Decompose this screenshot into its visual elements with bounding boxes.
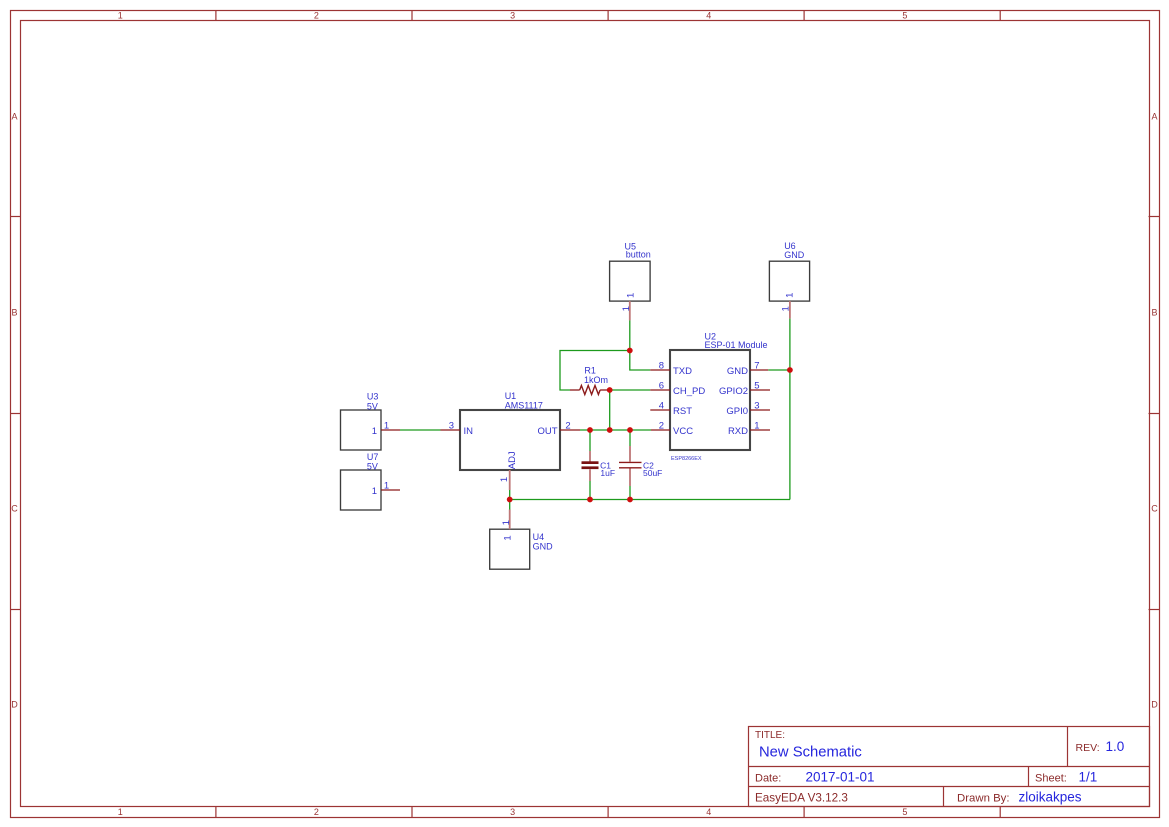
button U5 box: [610, 242, 651, 302]
svg-text:2: 2: [659, 421, 664, 432]
svg-text:50uF: 50uF: [643, 468, 662, 478]
svg-text:D: D: [11, 700, 18, 710]
wire loop U5 junction to R1 left: [560, 351, 630, 391]
junction GND node: [787, 367, 793, 373]
svg-text:5V: 5V: [367, 461, 378, 471]
U2 pin 7 GND: [727, 361, 768, 378]
svg-text:D: D: [1151, 700, 1158, 710]
svg-text:3: 3: [510, 807, 515, 817]
svg-text:Drawn By:: Drawn By:: [957, 793, 1010, 805]
svg-text:B: B: [11, 308, 17, 318]
ground symbol U4 box: [490, 529, 553, 569]
svg-text:GND: GND: [533, 542, 554, 552]
wire GND node down to rail: [789, 370, 791, 500]
junction C2 top: [627, 427, 633, 433]
svg-text:GND: GND: [784, 250, 805, 260]
svg-text:1uF: 1uF: [600, 468, 615, 478]
wire U3 to U1 IN: [400, 429, 441, 431]
svg-text:1: 1: [118, 10, 123, 20]
svg-text:ADJ: ADJ: [507, 451, 518, 469]
frame column ticks top: [216, 11, 1000, 21]
wire R1 to CH_PD: [610, 389, 651, 391]
svg-text:2: 2: [314, 807, 319, 817]
wire U1 OUT to U2 VCC: [580, 429, 651, 431]
svg-text:U7: U7: [367, 452, 379, 462]
svg-text:1kOm: 1kOm: [584, 375, 608, 385]
svg-text:5V: 5V: [367, 401, 378, 411]
U2 pin 5 GPIO2: [719, 381, 770, 398]
U7 pin 1: [372, 481, 400, 498]
capacitor C2 top lead: [629, 430, 631, 462]
junction C2 bottom: [627, 497, 633, 503]
ground symbol U6 box: [769, 241, 809, 301]
C2 labels: [643, 460, 662, 478]
U2 pin 2 VCC: [651, 421, 693, 438]
svg-text:C: C: [1151, 504, 1158, 514]
frame row letters right: [1151, 112, 1158, 710]
svg-text:4: 4: [706, 807, 711, 817]
svg-text:GND: GND: [727, 366, 748, 377]
svg-text:4: 4: [706, 10, 711, 20]
resistor R1: [570, 365, 610, 394]
svg-text:IN: IN: [464, 426, 474, 437]
svg-text:B: B: [1151, 308, 1157, 318]
svg-text:button: button: [626, 249, 651, 259]
svg-text:1: 1: [625, 293, 636, 298]
wire U6 pin down to GND node: [789, 319, 791, 370]
U2 pin 8 TXD: [650, 361, 692, 378]
svg-text:RST: RST: [673, 406, 692, 417]
svg-text:CH_PD: CH_PD: [673, 386, 705, 397]
svg-text:1: 1: [501, 520, 512, 525]
capacitor C1 bottom lead: [589, 469, 591, 499]
svg-text:2017-01-01: 2017-01-01: [806, 770, 875, 785]
svg-text:5: 5: [754, 381, 759, 392]
capacitor C1 plates: [582, 461, 599, 469]
U3 pin 1: [372, 421, 400, 438]
U1 pin 3 IN: [441, 421, 474, 438]
wire U5 pin to junction: [629, 320, 631, 350]
svg-text:A: A: [1151, 112, 1157, 122]
U1 pin 1 ADJ: [499, 451, 518, 490]
C1 labels: [600, 460, 615, 478]
svg-text:1: 1: [384, 421, 389, 432]
frame row ticks left: [11, 217, 21, 610]
svg-text:1: 1: [384, 481, 389, 492]
svg-text:1: 1: [372, 426, 377, 437]
capacitor C2 bottom lead: [629, 469, 631, 500]
ground rail wire: [510, 499, 790, 501]
wire R1 junction down to VCC wire: [609, 390, 611, 430]
junction C1 bottom: [587, 497, 593, 503]
module U2 ESP-01 box: [670, 332, 768, 463]
svg-text:8: 8: [659, 361, 664, 372]
svg-text:3: 3: [510, 10, 515, 20]
svg-text:GPI0: GPI0: [726, 406, 748, 417]
svg-text:3: 3: [449, 421, 454, 432]
U5 pin 1: [621, 293, 637, 321]
svg-text:6: 6: [659, 381, 664, 392]
power source U7 5V box: [341, 452, 382, 510]
U2 pin 6 CH_PD: [650, 381, 705, 398]
svg-text:1: 1: [372, 486, 377, 497]
svg-text:EasyEDA V3.12.3: EasyEDA V3.12.3: [755, 792, 848, 805]
svg-text:1: 1: [118, 807, 123, 817]
svg-text:Date:: Date:: [755, 773, 781, 785]
junction R1 right: [607, 387, 613, 393]
svg-text:U1: U1: [505, 391, 517, 401]
regulator U1 AMS1117 box: [460, 391, 560, 470]
svg-text:AMS1117: AMS1117: [505, 401, 543, 411]
svg-text:Sheet:: Sheet:: [1035, 773, 1067, 785]
svg-text:1.0: 1.0: [1106, 739, 1125, 754]
svg-text:1: 1: [780, 306, 791, 311]
junction R1 branch on VCC wire: [607, 427, 613, 433]
power source U3 5V box: [341, 392, 382, 451]
junction C1 top: [587, 427, 593, 433]
svg-text:GPIO2: GPIO2: [719, 386, 748, 397]
junction at ADJ and rail: [507, 497, 513, 503]
svg-text:1: 1: [754, 421, 759, 432]
U2 pin 3 GPI0: [726, 401, 770, 418]
wire rail to U4: [509, 500, 511, 510]
svg-text:2: 2: [314, 10, 319, 20]
capacitor C2 plates: [619, 462, 642, 467]
svg-text:REV:: REV:: [1076, 742, 1100, 754]
wire U5 junction to TXD: [630, 351, 651, 371]
svg-text:4: 4: [659, 401, 664, 412]
svg-text:1: 1: [621, 306, 632, 311]
svg-text:A: A: [11, 112, 17, 122]
U2 pin 4 RST: [650, 401, 692, 418]
U1 pin 2 OUT: [537, 421, 580, 438]
frame column numbers top: [118, 10, 908, 20]
svg-text:ESP8266EX: ESP8266EX: [671, 456, 702, 462]
svg-text:TITLE:: TITLE:: [755, 730, 785, 741]
svg-text:1: 1: [785, 293, 796, 298]
svg-text:1: 1: [499, 477, 510, 482]
frame column ticks bottom: [216, 807, 1000, 818]
capacitor C1 top lead: [589, 430, 591, 462]
svg-text:New Schematic: New Schematic: [759, 745, 862, 761]
svg-text:3: 3: [754, 401, 759, 412]
svg-text:TXD: TXD: [673, 366, 692, 377]
U2 pin 1 RXD: [728, 421, 770, 438]
svg-text:7: 7: [754, 361, 759, 372]
frame row ticks right: [1149, 217, 1160, 610]
svg-text:1: 1: [503, 535, 514, 540]
junction U5 node: [627, 348, 633, 354]
wire U1 ADJ to ground rail: [509, 490, 511, 500]
svg-text:5: 5: [902, 10, 907, 20]
svg-text:C: C: [11, 504, 18, 514]
svg-text:5: 5: [902, 807, 907, 817]
svg-text:OUT: OUT: [537, 426, 557, 437]
svg-text:2: 2: [565, 421, 570, 432]
svg-text:U4: U4: [533, 532, 545, 542]
svg-text:zloikakpes: zloikakpes: [1019, 790, 1082, 805]
title block outline: [749, 727, 1150, 807]
svg-text:U3: U3: [367, 392, 379, 402]
svg-text:R1: R1: [584, 365, 596, 375]
svg-text:VCC: VCC: [673, 426, 693, 437]
U4 pin 1: [501, 510, 514, 541]
frame row letters left: [11, 112, 18, 710]
svg-text:RXD: RXD: [728, 426, 748, 437]
svg-text:ESP-01 Module: ESP-01 Module: [705, 340, 768, 350]
U6 pin 1: [780, 293, 795, 319]
svg-text:1/1: 1/1: [1079, 770, 1098, 785]
wire U2 GND pin to node: [768, 369, 790, 371]
frame column numbers bottom: [118, 807, 908, 817]
